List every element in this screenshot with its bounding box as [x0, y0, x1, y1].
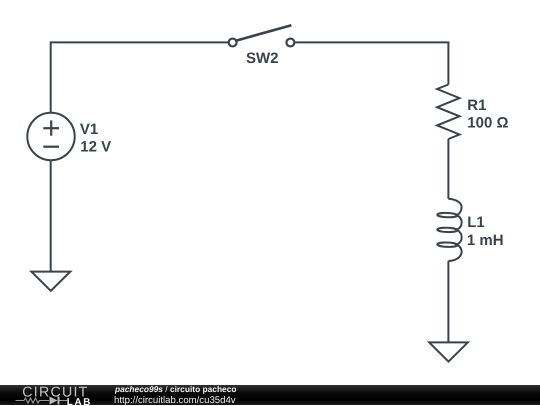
V1 plus sign — [43, 127, 59, 129]
L1 coil loop 2 — [437, 227, 457, 232]
wire V1 negative terminal to left ground — [50, 160, 52, 271]
SW2 lever (open) — [236, 25, 291, 40]
CircuitLab logo — [14, 384, 114, 405]
svg-text:V1: V1 — [80, 121, 98, 138]
ground (left) — [31, 272, 70, 291]
svg-text:12 V: 12 V — [80, 138, 111, 155]
resistor R1 — [437, 85, 459, 140]
svg-text:1 mH: 1 mH — [467, 232, 504, 249]
logo mini-schematic wire with resistor zigzag — [16, 398, 68, 403]
V1 minus sign — [43, 146, 59, 148]
svg-text:100 Ω: 100 Ω — [467, 115, 508, 132]
inductor L1 — [437, 199, 461, 261]
L1 coil loop 3 — [437, 242, 457, 247]
L1 coil spine with right-side bumps — [448, 199, 461, 261]
svg-text:L1: L1 — [467, 214, 485, 231]
wire V1 positive terminal to switch SW2 left pole (vertical + horizontal segments) — [51, 42, 229, 113]
footer line 1 — [115, 384, 237, 394]
svg-text:R1: R1 — [467, 97, 486, 114]
logo mini-schematic diode — [50, 397, 60, 405]
wire inductor to right ground — [447, 261, 449, 342]
voltage source V1 — [27, 113, 74, 160]
SW2 right pole terminal — [286, 39, 294, 47]
ground (right) — [429, 342, 468, 361]
wire switch SW2 right pole to resistor R1 top (horizontal + vertical segments) — [295, 42, 449, 84]
svg-text:SW2: SW2 — [246, 50, 279, 67]
footer black bar — [0, 385, 540, 405]
wire resistor to inductor — [447, 139, 449, 199]
switch SW2 — [229, 25, 295, 46]
L1 coil loop 1 — [437, 213, 457, 218]
footer line 2 — [114, 396, 236, 406]
SW2 left pole terminal — [229, 39, 237, 47]
svg-text:LAB: LAB — [67, 397, 92, 405]
V1 circle body — [27, 113, 74, 160]
